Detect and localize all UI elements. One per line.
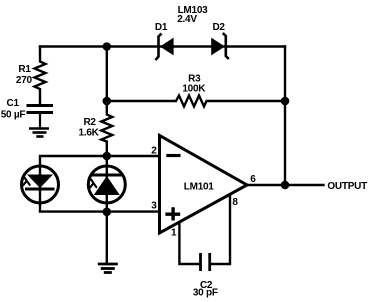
svg-text:6: 6 bbox=[250, 174, 256, 185]
svg-text:1: 1 bbox=[171, 228, 177, 239]
svg-text:D2: D2 bbox=[212, 22, 225, 33]
svg-text:OUTPUT: OUTPUT bbox=[327, 181, 367, 192]
svg-text:100K: 100K bbox=[182, 84, 206, 95]
svg-text:30 pF: 30 pF bbox=[193, 288, 218, 299]
svg-text:R1: R1 bbox=[18, 64, 31, 75]
svg-text:3: 3 bbox=[151, 201, 157, 212]
svg-text:8: 8 bbox=[232, 197, 238, 208]
svg-text:270: 270 bbox=[16, 75, 33, 86]
svg-text:1.6K: 1.6K bbox=[79, 128, 100, 139]
svg-text:LM101: LM101 bbox=[184, 181, 215, 192]
svg-text:C1: C1 bbox=[7, 98, 20, 109]
svg-text:2: 2 bbox=[151, 146, 157, 157]
svg-text:2.4V: 2.4V bbox=[177, 14, 197, 25]
svg-text:50 µF: 50 µF bbox=[1, 110, 26, 121]
svg-text:R2: R2 bbox=[83, 117, 96, 128]
svg-text:D1: D1 bbox=[155, 22, 168, 33]
